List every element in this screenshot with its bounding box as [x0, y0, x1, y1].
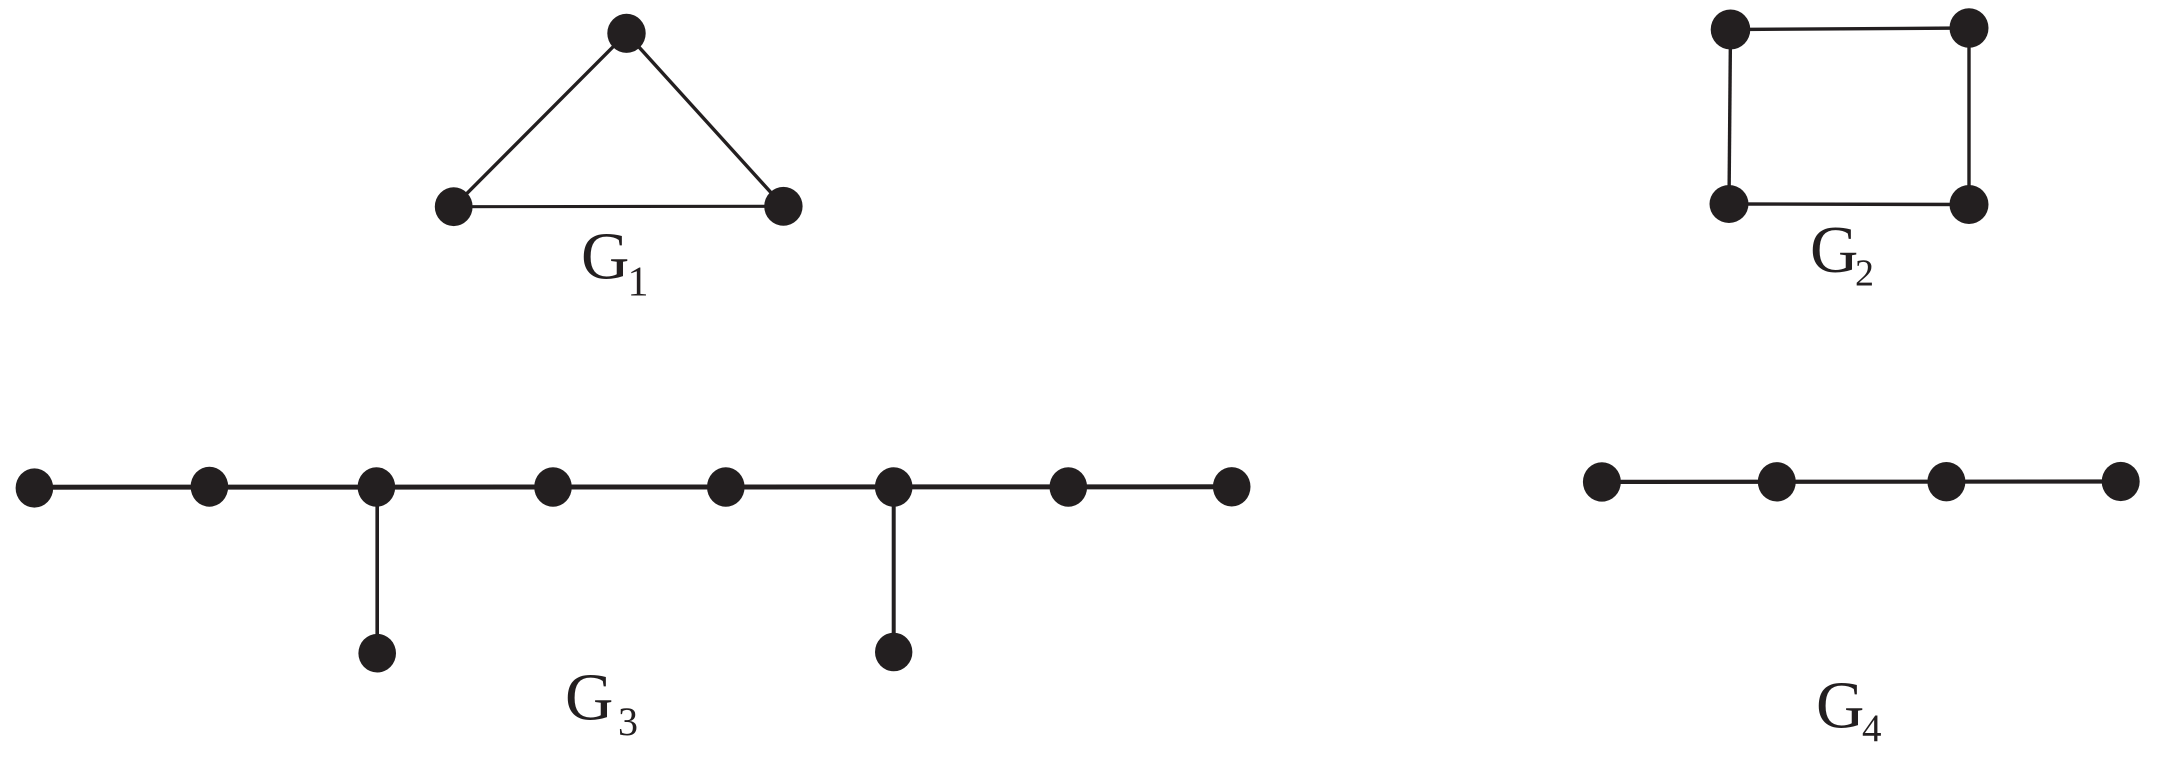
- svg-text:2: 2: [1855, 253, 1874, 295]
- svg-text:G: G: [581, 220, 629, 294]
- svg-text:G: G: [1816, 669, 1864, 743]
- svg-text:3: 3: [618, 699, 638, 744]
- svg-text:1: 1: [628, 260, 649, 306]
- svg-text:4: 4: [1862, 707, 1882, 750]
- svg-text:G: G: [565, 661, 613, 735]
- svg-text:G: G: [1810, 213, 1858, 287]
